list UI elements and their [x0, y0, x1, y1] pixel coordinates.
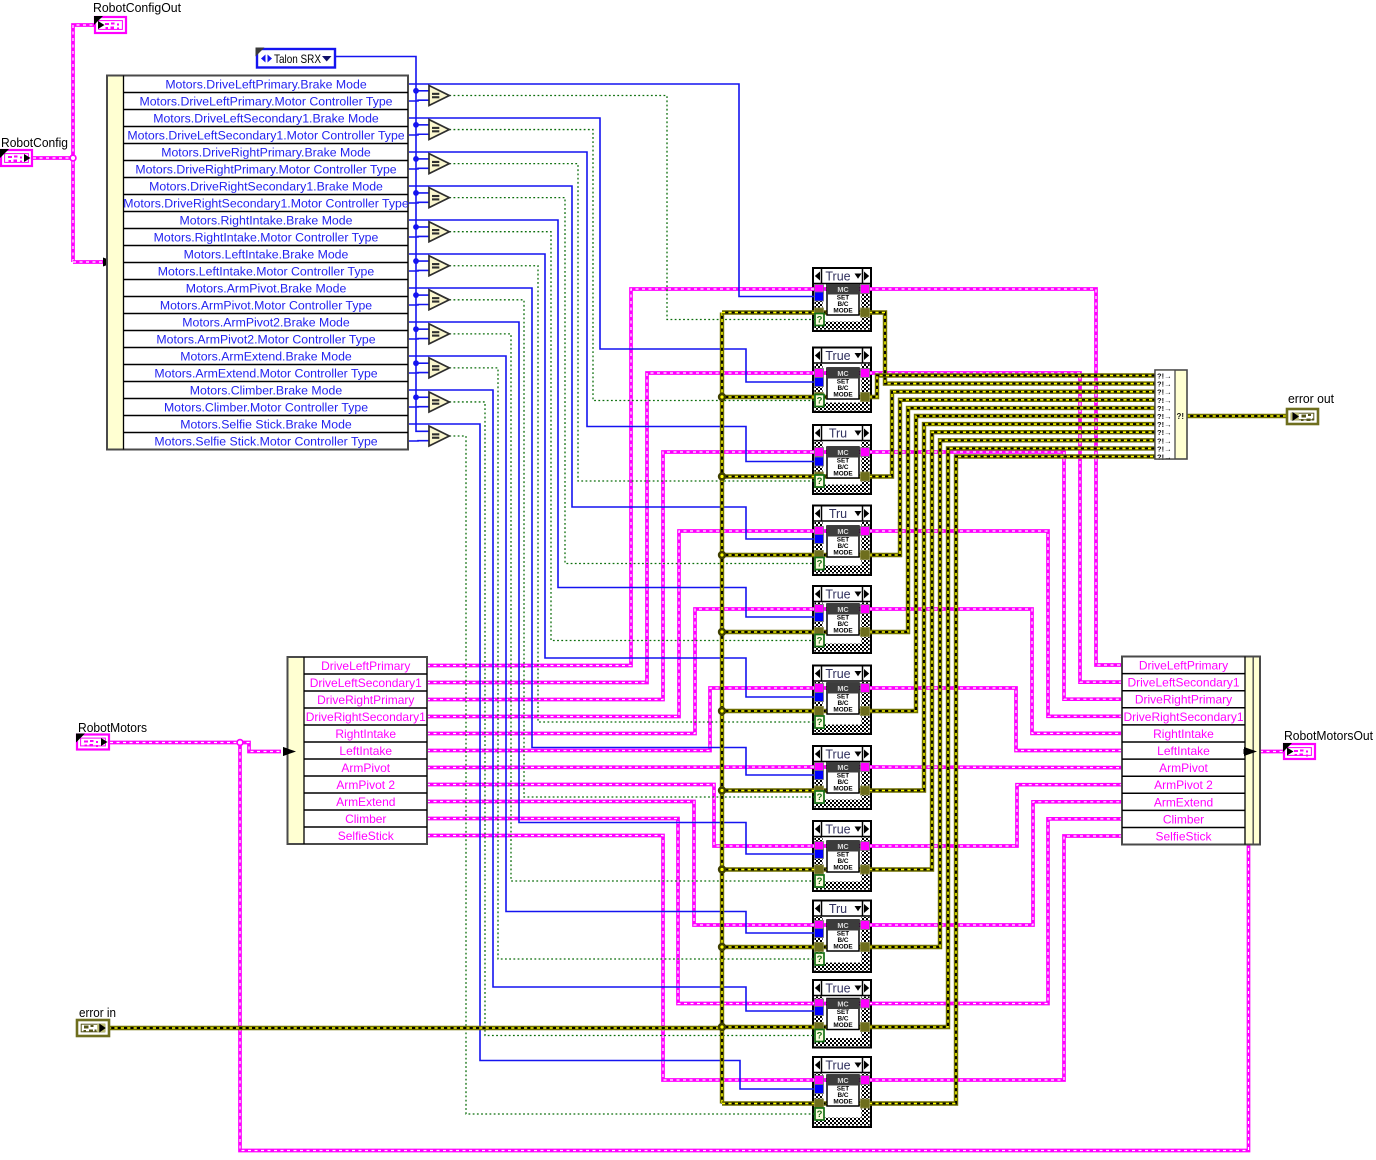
svg-text:Motors.ArmPivot.Motor Controll: Motors.ArmPivot.Motor Controller Type	[160, 299, 372, 313]
svg-text:MODE: MODE	[833, 864, 853, 871]
case structure CASE2 frame	[813, 348, 871, 413]
arrow input unbundle RobotConfig	[103, 258, 116, 267]
svg-text:Motors.Climber.Brake Mode: Motors.Climber.Brake Mode	[190, 384, 343, 398]
subVI MC SET B/C MODE (case 2)	[827, 368, 859, 399]
svg-text:error in: error in	[79, 1006, 116, 1020]
wire enum Talon SRX bus	[335, 57, 432, 432]
wire CASE6 error to merge input 6	[869, 416, 1155, 711]
svg-text:Motors.DriveRightPrimary.Brake: Motors.DriveRightPrimary.Brake Mode	[161, 146, 371, 160]
wire CASE7 to bundle	[869, 765, 1122, 769]
wire RobotConfig to unbundle	[73, 260, 104, 264]
svg-text:Motors.ArmExtend.Motor Control: Motors.ArmExtend.Motor Controller Type	[154, 367, 377, 381]
wire CASE4 error through	[813, 553, 871, 557]
svg-text:RobotConfig: RobotConfig	[1, 135, 68, 150]
svg-text:Tru: Tru	[829, 902, 847, 916]
wire motor9 to CASE9	[427, 802, 815, 926]
svg-text:?: ?	[817, 396, 823, 407]
wire bus to EQ10 top input	[416, 396, 432, 398]
subVI MC SET B/C MODE (case 9)	[827, 920, 859, 951]
terminal error out (indicator)	[1287, 409, 1318, 424]
wire CASE7 error through	[813, 788, 871, 792]
wire error bus vertical	[720, 313, 724, 1104]
wire CASE9 error through	[813, 945, 871, 949]
junction bus EQ9	[413, 360, 419, 366]
wire RobotMotors to unbundle	[240, 743, 281, 752]
unbundle-by-name RobotConfig (Motors)	[107, 76, 409, 450]
svg-text:True: True	[825, 748, 850, 762]
wire error in	[108, 1026, 722, 1030]
svg-text:Motors.DriveRightSecondary1.Mo: Motors.DriveRightSecondary1.Motor Contro…	[123, 197, 409, 211]
junction error bus CASE5	[718, 628, 726, 636]
svg-text:?: ?	[817, 876, 823, 887]
svg-text:error out: error out	[1288, 392, 1335, 406]
wire CASE2 to bundle	[869, 373, 1122, 682]
wire CASE4 to bundle	[869, 531, 1122, 716]
svg-text:?: ?	[817, 1109, 823, 1120]
svg-text:RightIntake: RightIntake	[1153, 727, 1214, 741]
wire CASE3 to bundle	[869, 452, 1122, 699]
junction bus EQ4	[413, 190, 419, 196]
selector terminal CASE7	[815, 791, 824, 803]
tunnels CASE11	[815, 1076, 870, 1109]
wire CASE1 error to merge input 2	[869, 313, 1155, 384]
wire CASE8 pink through	[813, 844, 871, 848]
svg-text:MC: MC	[837, 921, 849, 930]
svg-text:RobotConfigOut: RobotConfigOut	[93, 0, 181, 15]
svg-text:Motors.LeftIntake.Brake Mode: Motors.LeftIntake.Brake Mode	[184, 248, 349, 262]
selector terminal CASE2	[815, 395, 824, 407]
wire CASE8 error through	[813, 867, 871, 871]
selector terminal CASE11	[815, 1108, 824, 1120]
svg-text:Motors.ArmPivot2.Brake Mode: Motors.ArmPivot2.Brake Mode	[182, 316, 350, 330]
terminal error in (control)	[77, 1020, 109, 1036]
svg-text:?!→: ?!→	[1157, 453, 1172, 462]
subVI MC SET B/C MODE (case 10)	[827, 999, 859, 1030]
svg-text:True: True	[825, 349, 850, 363]
wire motor7 to CASE7	[427, 765, 815, 769]
wire motor11 to CASE11	[427, 836, 815, 1081]
label RobotMotors	[78, 720, 147, 735]
wire EQ6 result to CASE6 selector	[449, 266, 816, 722]
selector terminal CASE8	[815, 875, 824, 887]
svg-text:Motors.DriveRightPrimary.Motor: Motors.DriveRightPrimary.Motor Controlle…	[135, 163, 396, 177]
svg-text:MC: MC	[837, 842, 849, 851]
wire RobotMotors out	[110, 741, 240, 745]
svg-text:MC: MC	[837, 285, 849, 294]
wire BrakeMode1 to CASE1	[408, 84, 815, 297]
wire EQ9 result to CASE9 selector	[449, 368, 816, 959]
svg-text:DriveLeftPrimary: DriveLeftPrimary	[321, 659, 410, 673]
svg-text:MODE: MODE	[833, 1022, 853, 1029]
wire MotorControllerType1 to EQ1	[408, 99, 432, 102]
comparator EQ2 Equal?	[429, 120, 449, 140]
svg-text:?: ?	[817, 954, 823, 965]
selector terminal CASE5	[815, 635, 824, 647]
case structure CASE8 frame	[813, 821, 871, 891]
tunnels CASE8	[815, 842, 870, 875]
svg-text:LeftIntake: LeftIntake	[1157, 744, 1210, 758]
subVI MC SET B/C MODE (case 5)	[827, 604, 859, 635]
wire CASE5 error through	[813, 630, 871, 634]
wire CASE2 error through	[813, 395, 871, 399]
tunnels CASE1	[815, 285, 870, 318]
wire RobotMotors to bundle (bottom run)	[240, 743, 1249, 1151]
svg-text:?: ?	[817, 315, 823, 326]
wire EQ4 result to CASE4 selector	[449, 198, 816, 564]
svg-text:MODE: MODE	[833, 391, 853, 398]
wire MotorControllerType9 to EQ9	[408, 372, 432, 374]
wire CASE3 error through	[813, 474, 871, 478]
case structure CASE4 frame	[813, 506, 871, 576]
wire CASE11 error to merge input 11	[869, 457, 1155, 1104]
terminal RobotConfig (control)	[0, 149, 32, 166]
svg-text:MODE: MODE	[833, 470, 853, 477]
svg-text:Tru: Tru	[829, 427, 847, 441]
svg-text:?!: ?!	[1177, 412, 1185, 421]
wire error bus to CASE5	[722, 630, 815, 634]
terminal RobotConfigOut (indicator)	[94, 16, 126, 33]
wire error bus to CASE10	[722, 1025, 815, 1029]
svg-text:Motors.ArmExtend.Brake Mode: Motors.ArmExtend.Brake Mode	[180, 350, 352, 364]
wire CASE6 to bundle	[869, 688, 1122, 751]
svg-text:MODE: MODE	[833, 706, 853, 713]
svg-text:?: ?	[817, 559, 823, 570]
tunnels CASE9	[815, 921, 870, 952]
wire BrakeMode8 to CASE8	[408, 322, 815, 854]
wire MotorControllerType2 to EQ2	[408, 133, 432, 136]
svg-text:True: True	[825, 588, 850, 602]
wire CASE3 pink through	[813, 450, 871, 454]
wire error bus to CASE3	[722, 474, 815, 478]
svg-text:Climber: Climber	[1163, 812, 1204, 826]
svg-text:Motors.LeftIntake.Motor Contro: Motors.LeftIntake.Motor Controller Type	[158, 265, 375, 279]
svg-text:SelfieStick: SelfieStick	[1155, 830, 1212, 844]
selector terminal CASE4	[815, 558, 824, 570]
wire bus to EQ1 top input	[416, 90, 432, 92]
wire BrakeMode2 to CASE2	[408, 118, 815, 382]
wire EQ2 result to CASE2 selector	[449, 130, 816, 401]
svg-text:True: True	[825, 667, 850, 681]
svg-text:Tru: Tru	[829, 507, 847, 521]
unbundle-by-name RobotMotors	[288, 657, 428, 844]
svg-text:True: True	[825, 823, 850, 837]
junction bus EQ2	[413, 122, 419, 128]
wire MotorControllerType8 to EQ8	[408, 338, 432, 340]
case structure CASE9 frame	[813, 901, 871, 973]
wire CASE1 to bundle	[869, 289, 1122, 665]
svg-text:MODE: MODE	[833, 307, 853, 314]
svg-text:RobotMotorsOut: RobotMotorsOut	[1284, 728, 1373, 743]
svg-text:MC: MC	[837, 448, 849, 457]
wire CASE10 to bundle	[869, 819, 1122, 1004]
tunnels CASE10	[815, 999, 870, 1032]
svg-text:Talon SRX: Talon SRX	[274, 52, 321, 66]
junction error bus CASE7	[718, 786, 726, 794]
selector terminal CASE9	[815, 953, 824, 965]
svg-text:DriveRightSecondary1: DriveRightSecondary1	[306, 710, 426, 724]
junction bus EQ10	[413, 394, 419, 400]
wire CASE6 pink through	[813, 686, 871, 690]
wire CASE11 error through	[813, 1101, 871, 1105]
svg-text:MC: MC	[837, 369, 849, 378]
svg-text:MC: MC	[837, 684, 849, 693]
wire CASE2 error to merge input 1	[869, 376, 1155, 398]
comparator EQ9 Equal?	[429, 358, 449, 378]
junction bus EQ3	[413, 156, 419, 162]
subVI MC SET B/C MODE (case 11)	[827, 1075, 859, 1106]
comparator EQ4 Equal?	[429, 188, 449, 208]
svg-text:RobotMotors: RobotMotors	[78, 720, 147, 735]
svg-text:DriveRightPrimary: DriveRightPrimary	[317, 693, 414, 707]
selector terminal CASE10	[815, 1030, 824, 1042]
wire MotorControllerType6 to EQ6	[408, 269, 432, 272]
wire CASE9 error to merge input 9	[869, 440, 1155, 947]
wire motor4 to CASE4	[427, 531, 815, 717]
subVI MC SET B/C MODE (case 6)	[827, 683, 859, 714]
wire EQ10 result to CASE10 selector	[449, 402, 816, 1036]
wire CASE1 error through	[813, 310, 871, 314]
wire BrakeMode10 to CASE10	[408, 390, 815, 1011]
wire CASE11 pink through	[813, 1078, 871, 1082]
junction error bus CASE8	[718, 865, 726, 873]
wire motor10 to CASE10	[427, 819, 815, 1004]
svg-text:Motors.DriveLeftPrimary.Brake: Motors.DriveLeftPrimary.Brake Mode	[165, 78, 367, 92]
svg-text:DriveLeftPrimary: DriveLeftPrimary	[1139, 659, 1228, 673]
arrow input unbundle RobotMotors (redraw)	[283, 747, 296, 756]
case structure CASE11 frame	[813, 1057, 871, 1127]
arrow input unbundle RobotMotors	[283, 747, 296, 756]
wire CASE5 to bundle	[869, 609, 1122, 733]
junction error bus CASE6	[718, 707, 726, 715]
svg-text:?: ?	[817, 1031, 823, 1042]
wire motor6 to CASE6	[427, 688, 815, 751]
selector terminal CASE1	[815, 314, 824, 326]
svg-text:MODE: MODE	[833, 549, 853, 556]
svg-text:MODE: MODE	[833, 1098, 853, 1105]
terminal RobotMotors (control)	[76, 734, 109, 750]
junction RobotMotors wire	[237, 740, 243, 746]
selector terminal CASE6	[815, 716, 824, 728]
wire CASE6 error through	[813, 709, 871, 713]
svg-text:MC: MC	[837, 763, 849, 772]
svg-text:Motors.RightIntake.Motor Contr: Motors.RightIntake.Motor Controller Type	[154, 231, 379, 245]
wire MotorControllerType7 to EQ7	[408, 304, 432, 307]
svg-text:ArmPivot: ArmPivot	[1159, 761, 1208, 775]
wire MotorControllerType11 to EQ11	[408, 440, 432, 442]
svg-text:Climber: Climber	[345, 812, 386, 826]
wire merge errors to error out	[1187, 414, 1288, 418]
wire bus to EQ4 top input	[416, 192, 432, 194]
junction bus EQ8	[413, 326, 419, 332]
wire motor3 to CASE3	[427, 452, 815, 700]
comparator EQ10 Equal?	[429, 392, 449, 412]
tunnels CASE6	[815, 684, 870, 716]
svg-text:RightIntake: RightIntake	[335, 727, 396, 741]
wire CASE4 error to merge input 4	[869, 400, 1155, 555]
svg-text:ArmPivot 2: ArmPivot 2	[1154, 778, 1213, 792]
wire bus to EQ2 top input	[416, 124, 432, 126]
wire bundle to RobotMotorsOut	[1260, 750, 1284, 754]
svg-text:MC: MC	[837, 527, 849, 536]
tunnels CASE5	[815, 605, 870, 637]
svg-text:True: True	[825, 982, 850, 996]
wire CASE8 error to merge input 8	[869, 432, 1155, 869]
case structure CASE3 frame	[813, 425, 871, 494]
wire EQ3 result to CASE3 selector	[449, 164, 816, 481]
wire motor8 to CASE8	[427, 785, 815, 847]
subVI MC SET B/C MODE (case 1)	[827, 284, 859, 315]
subVI MC SET B/C MODE (case 8)	[827, 841, 859, 872]
wire EQ5 result to CASE5 selector	[449, 232, 816, 641]
label RobotConfigOut	[93, 0, 181, 15]
wire CASE11 to bundle	[869, 836, 1122, 1080]
wire error bus to CASE7	[722, 788, 815, 792]
wire motor5 to CASE5	[427, 609, 815, 734]
wire BrakeMode9 to CASE9	[408, 356, 815, 933]
subVI MC SET B/C MODE (case 3)	[827, 447, 859, 478]
subVI MC SET B/C MODE (case 7)	[827, 762, 859, 793]
wire bus to EQ8 top input	[416, 328, 432, 330]
svg-text:ArmExtend: ArmExtend	[336, 795, 395, 809]
junction bus EQ5	[413, 224, 419, 230]
case structure CASE6 frame	[813, 666, 871, 735]
junction bus EQ1	[413, 88, 419, 94]
svg-text:MODE: MODE	[833, 943, 853, 950]
wire bus to EQ6 top input	[416, 260, 432, 262]
wire bus to EQ5 top input	[416, 226, 432, 228]
wire CASE5 pink through	[813, 607, 871, 611]
wire BrakeMode4 to CASE4	[408, 186, 815, 539]
wire MotorControllerType10 to EQ10	[408, 406, 432, 408]
wire BrakeMode6 to CASE6	[408, 254, 815, 697]
svg-text:ArmPivot 2: ArmPivot 2	[336, 778, 395, 792]
arrow input bundle RobotMotorsOut	[1243, 747, 1256, 756]
wire bus to EQ3 top input	[416, 158, 432, 160]
svg-text:Motors.DriveLeftPrimary.Motor: Motors.DriveLeftPrimary.Motor Controller…	[139, 95, 392, 109]
junction RobotConfig wire	[70, 155, 76, 161]
label error out	[1288, 392, 1335, 406]
svg-text:Motors.DriveRightSecondary1.Br: Motors.DriveRightSecondary1.Brake Mode	[149, 180, 383, 194]
case structure CASE10 frame	[813, 980, 871, 1048]
wire error bus to CASE9	[722, 945, 815, 949]
svg-text:DriveLeftSecondary1: DriveLeftSecondary1	[1127, 676, 1239, 690]
wire BrakeMode11 to CASE11	[408, 424, 815, 1089]
wire BrakeMode5 to CASE5	[408, 220, 815, 617]
wire EQ8 result to CASE8 selector	[449, 334, 816, 881]
wire MotorControllerType5 to EQ5	[408, 235, 432, 238]
wire MotorControllerType3 to EQ3	[408, 167, 432, 170]
enum constant Talon SRX	[256, 48, 336, 68]
junction error bus CASE4	[718, 551, 726, 559]
wire RobotConfig out	[33, 156, 73, 160]
svg-text:Motors.ArmPivot.Brake Mode: Motors.ArmPivot.Brake Mode	[186, 282, 347, 296]
tunnels CASE2	[815, 369, 870, 402]
wire error bus to CASE11	[722, 1101, 815, 1105]
wire CASE10 error through	[813, 1025, 871, 1029]
svg-text:Motors.DriveLeftSecondary1.Bra: Motors.DriveLeftSecondary1.Brake Mode	[153, 112, 379, 126]
wire error bus to CASE4	[722, 553, 815, 557]
svg-text:LeftIntake: LeftIntake	[339, 744, 392, 758]
svg-text:ArmPivot: ArmPivot	[341, 761, 390, 775]
comparator EQ6 Equal?	[429, 256, 449, 276]
junction bus EQ7	[413, 292, 419, 298]
selector terminal CASE3	[815, 475, 824, 487]
subVI MC SET B/C MODE (case 4)	[827, 526, 859, 557]
case structure CASE1 frame	[813, 268, 871, 331]
wire error bus to CASE6	[722, 709, 815, 713]
svg-text:MC: MC	[837, 1076, 849, 1085]
svg-text:DriveRightPrimary: DriveRightPrimary	[1135, 693, 1232, 707]
wire BrakeMode7 to CASE7	[408, 288, 815, 775]
wire error bus to CASE2	[722, 395, 815, 399]
svg-text:Motors.RightIntake.Brake Mode: Motors.RightIntake.Brake Mode	[180, 214, 353, 228]
svg-text:?: ?	[817, 476, 823, 487]
wire EQ7 result to CASE7 selector	[449, 300, 816, 797]
junction error bus CASE10	[718, 1023, 726, 1031]
wire error bus to CASE8	[722, 867, 815, 871]
svg-text:?: ?	[817, 792, 823, 803]
tunnels CASE4	[815, 527, 870, 560]
svg-text:True: True	[825, 270, 850, 284]
comparator EQ1 Equal?	[429, 86, 449, 106]
label RobotMotorsOut	[1284, 728, 1373, 743]
svg-text:ArmExtend: ArmExtend	[1154, 795, 1213, 809]
wire CASE5 error to merge input 5	[869, 408, 1155, 632]
label error in	[79, 1006, 116, 1020]
merge errors node	[1155, 370, 1187, 462]
wire RobotConfig to RobotConfigOut	[73, 25, 95, 262]
svg-text:?: ?	[817, 717, 823, 728]
case structure CASE5 frame	[813, 586, 871, 653]
junction error bus CASE9	[718, 943, 726, 951]
wire CASE9 to bundle	[869, 802, 1122, 925]
wire bus to EQ7 top input	[416, 294, 432, 296]
wire CASE1 pink through	[813, 287, 871, 291]
junction error bus CASE2	[718, 393, 726, 401]
wire MotorControllerType4 to EQ4	[408, 201, 432, 204]
wire CASE10 pink through	[813, 1002, 871, 1006]
terminal RobotMotorsOut (indicator)	[1283, 743, 1315, 759]
svg-text:Motors.Selfie Stick.Motor Cont: Motors.Selfie Stick.Motor Controller Typ…	[154, 435, 377, 449]
wire error bus to CASE1	[722, 310, 815, 314]
wire CASE4 pink through	[813, 529, 871, 533]
junction error bus CASE3	[718, 472, 726, 480]
wire CASE9 pink through	[813, 923, 871, 927]
svg-text:True: True	[825, 1059, 850, 1073]
svg-text:Motors.Selfie Stick.Brake Mode: Motors.Selfie Stick.Brake Mode	[180, 418, 352, 432]
wire bus to EQ9 top input	[416, 362, 432, 364]
label RobotConfig	[1, 135, 68, 150]
wire CASE7 pink through	[813, 765, 871, 769]
svg-text:Motors.Climber.Motor Controlle: Motors.Climber.Motor Controller Type	[164, 401, 368, 415]
wire EQ11 result to CASE11 selector	[449, 436, 816, 1114]
wire motor2 to CASE2	[427, 373, 815, 683]
wire CASE2 pink through	[813, 371, 871, 375]
arrow input bundle (redraw)	[1244, 747, 1258, 756]
comparator EQ7 Equal?	[429, 290, 449, 310]
comparator EQ11 Equal?	[429, 426, 449, 446]
tunnels CASE3	[815, 448, 870, 482]
svg-text:?: ?	[817, 636, 823, 647]
wire CASE10 error to merge input 10	[869, 448, 1155, 1027]
bundle-by-name RobotMotorsOut	[1122, 657, 1260, 845]
svg-text:MODE: MODE	[833, 627, 853, 634]
tunnels CASE7	[815, 763, 870, 796]
comparator EQ8 Equal?	[429, 324, 449, 344]
wire EQ1 result to CASE1 selector	[449, 96, 816, 320]
svg-text:MODE: MODE	[833, 785, 853, 792]
wire CASE3 error to merge input 3	[869, 392, 1155, 477]
